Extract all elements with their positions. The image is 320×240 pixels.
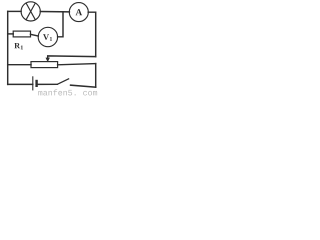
- wire rheostat right lead: [58, 64, 96, 65]
- wire left rail: [7, 11, 9, 84]
- resistor R1: [13, 31, 30, 37]
- wire right rail lower: [95, 64, 97, 88]
- wire top-left corner to lamp: [8, 10, 21, 12]
- wire rheostat wiper feed: [48, 56, 96, 58]
- label R: [14, 43, 20, 48]
- voltmeter label subscript 1: [50, 37, 52, 41]
- label R subscript 1: [21, 45, 23, 49]
- battery short plate (-): [35, 80, 37, 87]
- watermark manfen5. com: [38, 89, 97, 95]
- voltmeter V1: [38, 27, 57, 46]
- voltmeter label V: [43, 34, 49, 40]
- wire rheostat left lead: [8, 64, 31, 66]
- wire switch contact to bottom-right corner: [71, 85, 96, 87]
- rheostat wiper arrow: [46, 58, 50, 63]
- battery long plate (+): [32, 76, 34, 90]
- ammeter A: [69, 3, 88, 22]
- wire voltmeter V1 up to node at top wire: [58, 12, 63, 37]
- switch blade (open): [57, 79, 69, 85]
- lamp (circle with X): [21, 2, 40, 21]
- wire left rail to resistor R1: [8, 33, 14, 35]
- wire battery to switch: [37, 83, 58, 85]
- ammeter label A: [76, 9, 82, 15]
- wire ammeter to top-right corner and down right rail: [88, 12, 96, 56]
- wire resistor R1 to voltmeter V1: [31, 34, 39, 36]
- wire bottom-left to battery: [8, 83, 33, 85]
- wire lamp to ammeter (node junction at x=63): [40, 11, 69, 13]
- rheostat body: [31, 62, 58, 68]
